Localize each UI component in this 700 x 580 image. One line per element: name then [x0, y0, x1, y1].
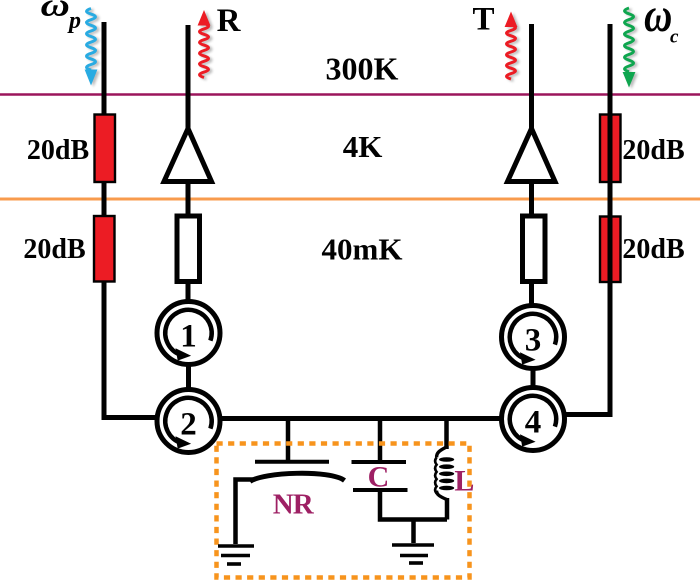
wire junction to ground [411, 520, 416, 544]
svg-text:20dB: 20dB [23, 234, 85, 265]
wire right column (cavity drive) [565, 24, 611, 415]
svg-text:20dB: 20dB [622, 234, 684, 265]
svg-text:c: c [670, 26, 679, 47]
amplifier R arm [164, 129, 212, 182]
svg-text:1: 1 [180, 319, 197, 355]
svg-text:NR: NR [273, 489, 315, 521]
ground NR [218, 546, 254, 564]
readout arrow R (red wavy, up) [198, 10, 213, 79]
wire R arm amp to attenuator [186, 182, 191, 219]
cavity arrow omega_c (green wavy, down) [623, 8, 638, 89]
dashed enclosure box [217, 444, 470, 578]
wire C bottom to junction [380, 490, 447, 520]
capacitor C top plate [352, 460, 407, 464]
wire attenuator to circulator 1 [186, 282, 191, 303]
circulator 4 [502, 388, 565, 451]
attenuator white box R arm [177, 216, 200, 282]
circulator 3 [502, 306, 565, 369]
wire bus circulator 2 to circulator 4 [219, 416, 502, 421]
svg-text:4: 4 [525, 405, 542, 441]
wire attenuator to circulator 3 [529, 282, 534, 307]
attenuator white box T arm [523, 216, 546, 282]
label omega_c [644, 0, 672, 42]
svg-text:R: R [217, 3, 242, 39]
transmission arrow T (red wavy, up) [505, 12, 520, 81]
svg-text:40mK: 40mK [322, 232, 403, 267]
inductor L coil [435, 447, 454, 500]
svg-text:p: p [67, 8, 81, 34]
svg-text:L: L [454, 465, 474, 498]
ground C/L [392, 545, 434, 563]
wire R arm [186, 25, 191, 133]
wire drop to C [378, 418, 383, 462]
NR curved plate [250, 473, 345, 481]
wire L bottom [445, 498, 450, 520]
capacitor C bottom plate [353, 488, 408, 492]
temperature boundary line 4K/40mK [0, 198, 700, 201]
NR top plate [255, 460, 329, 464]
attenuator 20dB right upper [600, 115, 621, 183]
attenuator 20dB right lower [600, 217, 621, 283]
svg-text:20dB: 20dB [27, 135, 89, 166]
wire circulator 3 to circulator 4 [531, 369, 536, 389]
circulator 1 [157, 302, 220, 365]
temperature boundary line 300K/4K [0, 93, 700, 96]
wire circulator 1 to circulator 2 [186, 365, 191, 391]
svg-text:4K: 4K [343, 129, 383, 164]
wire left column (pump line) [104, 22, 159, 418]
circulator 2 [157, 390, 220, 453]
svg-text:ω: ω [644, 0, 672, 42]
amplifier T arm [508, 129, 556, 182]
attenuator 20dB left lower [94, 216, 115, 282]
svg-text:2: 2 [180, 407, 197, 443]
wire T arm top [529, 24, 534, 133]
label omega_p [41, 0, 70, 23]
wire drop to NR [286, 418, 291, 461]
NR left wire to ground [236, 480, 254, 545]
svg-text:300K: 300K [326, 51, 399, 87]
wire drop to L [444, 418, 449, 449]
pump arrow omega_p (blue wavy, down) [85, 9, 100, 88]
wire T arm amp to attenuator [529, 182, 534, 219]
svg-text:ω: ω [41, 0, 70, 23]
svg-text:3: 3 [525, 323, 542, 359]
svg-text:20dB: 20dB [622, 135, 684, 166]
attenuator 20dB left upper [95, 115, 116, 183]
svg-text:T: T [472, 2, 494, 38]
svg-text:C: C [368, 461, 390, 494]
